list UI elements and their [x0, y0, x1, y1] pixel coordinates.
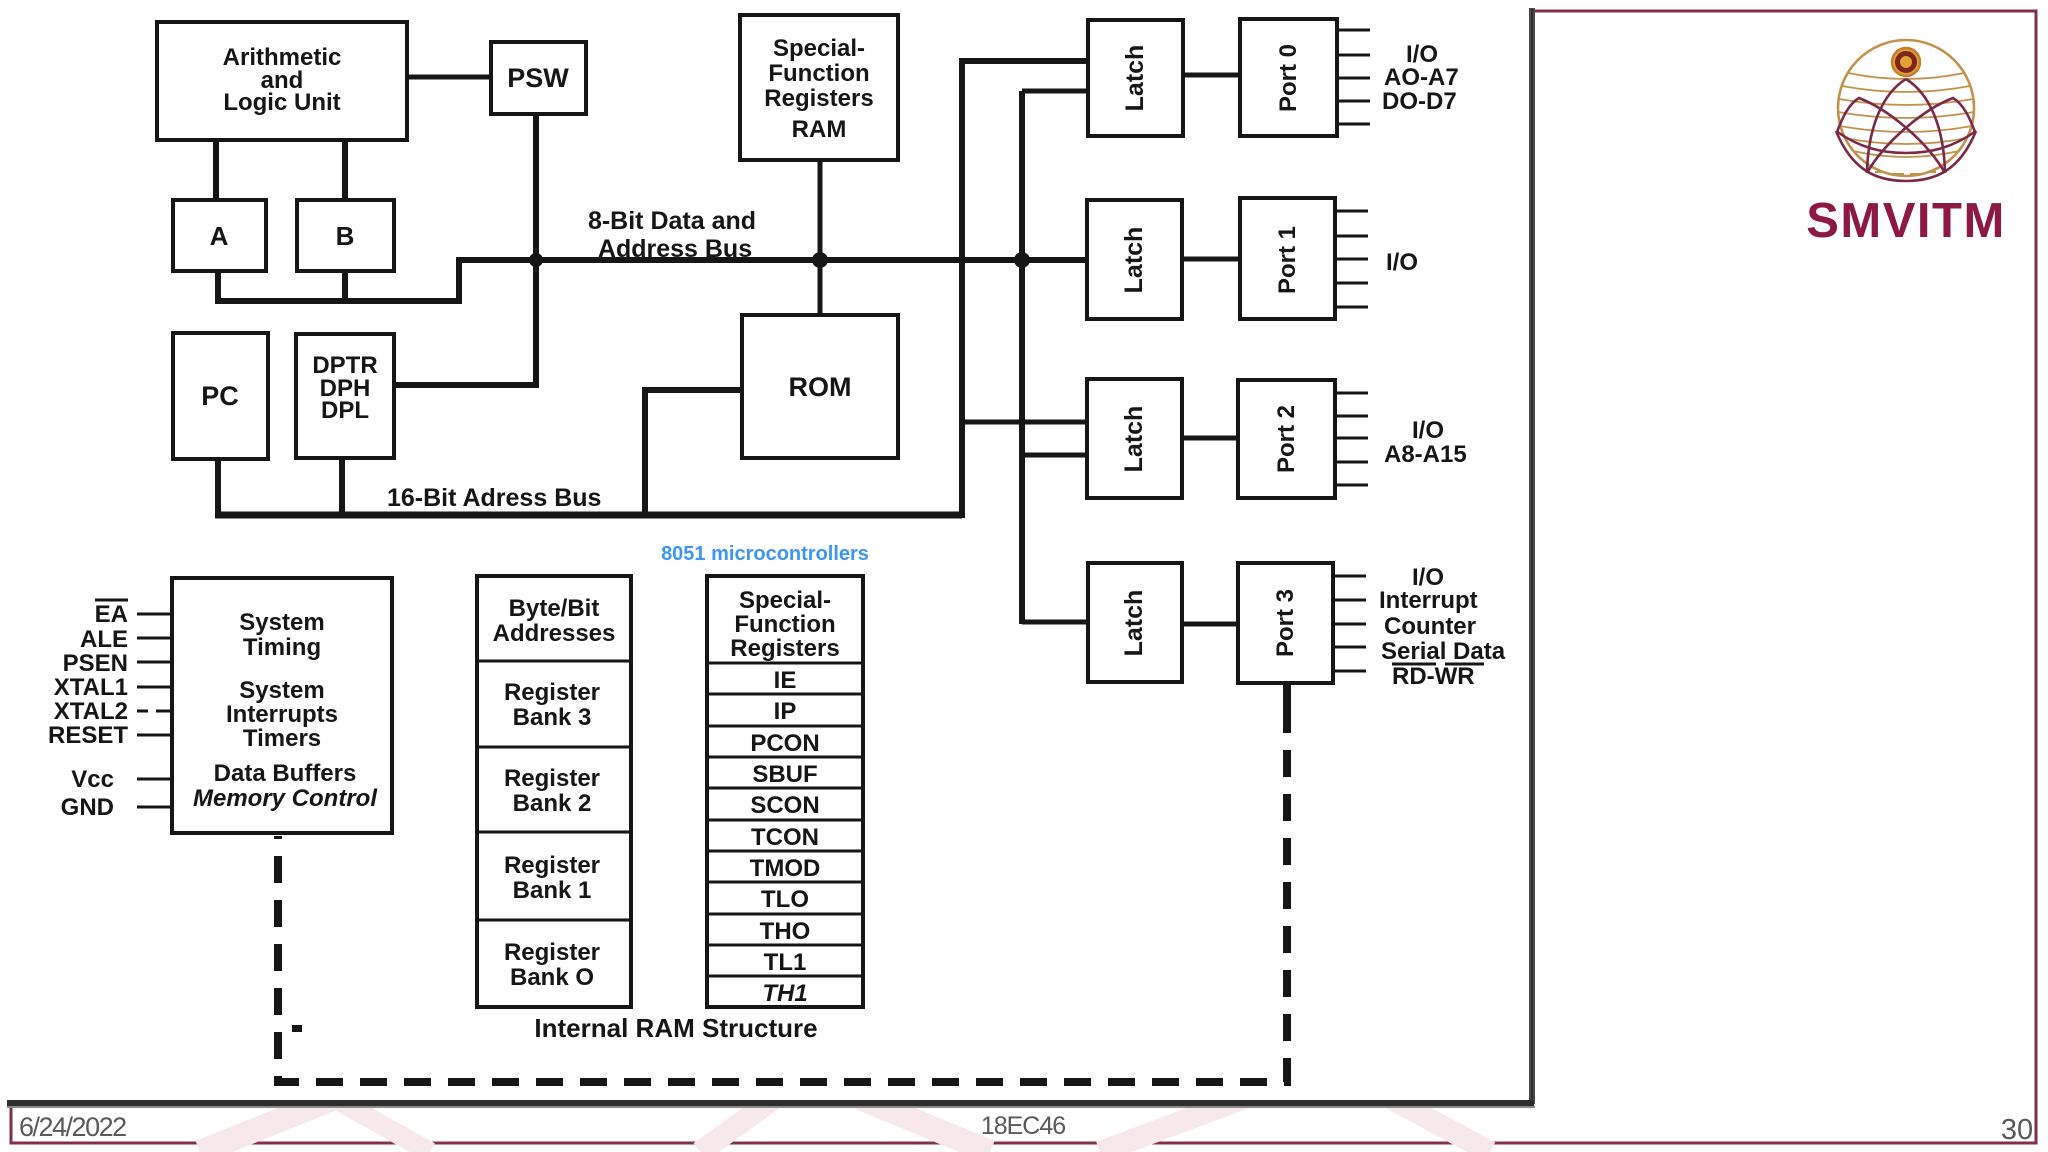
box B [297, 200, 394, 271]
svg-text:Serial Data: Serial Data [1381, 638, 1506, 665]
svg-text:Logic Unit: Logic Unit [223, 89, 340, 116]
tiny gold motto under petals [1875, 172, 1936, 174]
svg-text:Port 0: Port 0 [1275, 44, 1302, 112]
diagram texts [48, 35, 1506, 1043]
wire latch 2 to port 2 [1182, 436, 1238, 441]
wire port 3 bottom solid stub [1283, 683, 1291, 706]
svg-text:Bank 3: Bank 3 [513, 704, 592, 731]
port 1 pin label [1386, 249, 1418, 276]
globe outer circle (gold) [1838, 40, 1974, 176]
wire bus down to ROM top [818, 260, 823, 315]
globe latitude arcs (gold) [1838, 73, 1974, 157]
port 3 pin stubs [1333, 576, 1366, 671]
wire A to bottom rail [215, 271, 221, 304]
svg-text:Memory Control: Memory Control [193, 785, 378, 812]
svg-text:16-Bit Adress Bus: 16-Bit Adress Bus [387, 484, 601, 512]
box SFR RAM [740, 15, 898, 160]
label 16-bit bus [387, 484, 601, 512]
box port 3 [1238, 563, 1333, 683]
svg-text:Registers: Registers [764, 85, 873, 112]
svg-text:Bank 2: Bank 2 [513, 790, 592, 817]
faint pink watermark ribbons in footer [200, 1096, 1490, 1152]
wire data riser vertical [1019, 91, 1025, 624]
box PC [173, 333, 268, 459]
svg-text:TLO: TLO [761, 886, 809, 913]
svg-text:Function: Function [734, 611, 835, 638]
svg-text:B: B [336, 221, 355, 251]
svg-text:SCON: SCON [750, 792, 819, 819]
svg-text:Register: Register [504, 765, 600, 792]
wire 16-bit address bus [215, 512, 962, 519]
wire data riser to latch 2 [1022, 453, 1087, 458]
label port 3 [1272, 589, 1299, 657]
port 2 pin stubs [1335, 393, 1368, 485]
port 3 pin labels [1379, 564, 1506, 690]
pin labels left of system timing [48, 601, 128, 821]
label port 1 [1274, 226, 1301, 294]
svg-text:Special-: Special- [773, 35, 865, 62]
wire latch 3 to port 3 [1182, 622, 1238, 627]
wire data riser to latch 3 [1022, 620, 1088, 625]
labels special function registers table [730, 587, 839, 1007]
label internal RAM structure [534, 1013, 817, 1043]
svg-text:Byte/Bit: Byte/Bit [509, 595, 600, 622]
svg-text:DPL: DPL [321, 397, 369, 424]
wire bottom rail of A,B joining 8-bit bus [215, 260, 459, 301]
svg-text:Port 1: Port 1 [1274, 226, 1301, 294]
port 0 pin labels [1382, 41, 1459, 115]
svg-text:30: 30 [2001, 1114, 2033, 1146]
wire dashed: port 3 down, across, up to system timing [278, 706, 1287, 1082]
wire DPTR down to 16-bit bus [339, 458, 345, 515]
box special function registers table [707, 576, 863, 1007]
svg-text:GND: GND [61, 794, 114, 821]
svg-text:IP: IP [774, 698, 797, 725]
svg-text:Address Bus: Address Bus [598, 235, 752, 263]
node junction PSW vertical x 8-bit bus [529, 253, 543, 267]
label A [210, 221, 229, 251]
wire 8-bit data and address bus [456, 257, 1088, 263]
svg-text:Port 3: Port 3 [1272, 589, 1299, 657]
box latch 3 [1088, 563, 1182, 682]
pin leader lines into system timing box [137, 614, 172, 807]
svg-text:XTAL2: XTAL2 [54, 698, 128, 725]
svg-text:AO-A7: AO-A7 [1384, 64, 1459, 91]
label latch 2 [1120, 406, 1148, 473]
svg-text:Registers: Registers [730, 635, 839, 662]
label ALU [223, 44, 342, 116]
label B [336, 221, 355, 251]
svg-text:TH1: TH1 [762, 980, 807, 1007]
svg-text:EA: EA [95, 601, 128, 628]
svg-text:RESET: RESET [48, 722, 128, 749]
SMVITM logo [1806, 40, 2006, 248]
label SFR RAM [764, 35, 873, 143]
wire latch 0 to port 0 [1183, 73, 1240, 78]
svg-text:Register: Register [504, 852, 600, 879]
label 8-bit bus [588, 207, 756, 263]
svg-text:RAM: RAM [792, 116, 847, 143]
label latch 0 [1121, 45, 1149, 112]
svg-text:Bank O: Bank O [510, 964, 594, 991]
svg-text:THO: THO [760, 918, 811, 945]
svg-text:SBUF: SBUF [752, 761, 817, 788]
svg-text:Addresses: Addresses [493, 620, 616, 647]
sun at top of globe [1892, 48, 1920, 76]
wire address riser to latch 2 [962, 420, 1087, 425]
svg-text:Data Buffers: Data Buffers [214, 760, 357, 787]
wire PSW vertical to DPTR link [394, 114, 536, 385]
svg-text:Counter: Counter [1384, 613, 1476, 640]
label port 0 [1275, 44, 1302, 112]
port 2 pin labels [1384, 417, 1467, 468]
svg-text:Interrupt: Interrupt [1379, 587, 1478, 614]
svg-text:Timers: Timers [243, 725, 321, 752]
wire PC down to 16-bit bus [215, 459, 221, 515]
svg-text:Interrupts: Interrupts [226, 701, 338, 728]
svg-text:18EC46: 18EC46 [981, 1112, 1065, 1140]
wire ALU to A [213, 140, 219, 200]
svg-text:Function: Function [768, 60, 869, 87]
svg-text:DO-D7: DO-D7 [1382, 88, 1457, 115]
wire data riser top to latch 0 [1022, 89, 1088, 94]
svg-text:TMOD: TMOD [750, 855, 821, 882]
wire ROM left to 16-bit bus [645, 390, 742, 518]
svg-text:System: System [239, 609, 324, 636]
svg-text:A8-A15: A8-A15 [1384, 441, 1467, 468]
label ROM [789, 372, 852, 402]
svg-text:PC: PC [201, 381, 239, 411]
svg-text:PSW: PSW [507, 63, 569, 93]
svg-text:Latch: Latch [1120, 590, 1148, 657]
node junction SFR vertical x 8-bit bus [812, 252, 828, 268]
labels byte/bit addresses table [493, 595, 616, 991]
svg-text:ROM: ROM [789, 372, 852, 402]
svg-text:PCON: PCON [750, 730, 819, 757]
wire ALU to B [342, 140, 348, 200]
svg-text:ALE: ALE [80, 626, 128, 653]
svg-text:Latch: Latch [1121, 45, 1149, 112]
svg-text:Port 2: Port 2 [1273, 405, 1300, 473]
lotus petals (maroon line art) [1836, 79, 1976, 181]
svg-text:RD-WR: RD-WR [1392, 663, 1475, 690]
port 0 pin stubs [1337, 30, 1370, 124]
svg-text:Timing: Timing [243, 634, 321, 661]
svg-text:XTAL1: XTAL1 [54, 674, 128, 701]
svg-text:Register: Register [504, 939, 600, 966]
svg-text:Internal RAM Structure: Internal RAM Structure [534, 1013, 817, 1043]
svg-text:TCON: TCON [751, 824, 819, 851]
box latch 1 [1087, 200, 1182, 319]
box DPTR [296, 334, 394, 458]
box port 0 [1240, 19, 1337, 136]
box port 2 [1238, 380, 1335, 498]
svg-text:Bank 1: Bank 1 [513, 877, 592, 904]
stray dash mark [292, 1025, 302, 1032]
svg-text:Vcc: Vcc [71, 766, 114, 793]
svg-text:System: System [239, 677, 324, 704]
box ROM [742, 315, 898, 458]
svg-text:Register: Register [504, 679, 600, 706]
label system timing box [193, 609, 378, 812]
node junction data riser x 8-bit bus [1014, 252, 1030, 268]
wire SFR-RAM down to bus [818, 160, 823, 260]
box latch 2 [1087, 379, 1182, 498]
svg-text:Special-: Special- [739, 587, 831, 614]
label PSW [507, 63, 569, 93]
svg-text:TL1: TL1 [764, 949, 807, 976]
box system timing [172, 578, 392, 833]
scanned image block (white with dark right and bottom edges) [6, 0, 1535, 1108]
svg-text:SMVITM: SMVITM [1806, 194, 2006, 248]
svg-text:PSEN: PSEN [63, 650, 128, 677]
wire B to bottom rail [342, 271, 348, 304]
EA pin overline [95, 599, 128, 602]
wire ALU to PSW [407, 75, 491, 80]
box PSW [491, 42, 586, 114]
box byte/bit addresses table [477, 576, 631, 1007]
label DPTR DPH DPL [312, 352, 377, 424]
box port 1 [1240, 198, 1335, 319]
svg-text:8051 microcontrollers: 8051 microcontrollers [661, 543, 869, 565]
footer text: date [19, 1112, 2033, 1146]
label PC [201, 381, 239, 411]
wire address riser from 16-bit bus up to latch 0 [962, 61, 1088, 518]
label port 2 [1273, 405, 1300, 473]
svg-text:Latch: Latch [1120, 227, 1148, 294]
svg-text:Latch: Latch [1120, 406, 1148, 473]
box A [173, 200, 266, 271]
label latch 1 [1120, 227, 1148, 294]
wire latch 1 to port 1 [1182, 257, 1240, 262]
svg-text:I/O: I/O [1386, 249, 1418, 276]
label latch 3 [1120, 590, 1148, 657]
svg-text:I/O: I/O [1412, 417, 1444, 444]
svg-text:A: A [210, 221, 229, 251]
svg-text:6/24/2022: 6/24/2022 [19, 1112, 126, 1142]
RD-WR overlines [1392, 663, 1484, 666]
svg-text:8-Bit Data and: 8-Bit Data and [588, 207, 756, 235]
port 1 pin stubs [1335, 211, 1368, 307]
svg-text:IE: IE [774, 667, 797, 694]
box ALU [157, 22, 407, 140]
box latch 0 [1088, 20, 1183, 136]
label 8051 microcontrollers (blue) [661, 543, 869, 565]
